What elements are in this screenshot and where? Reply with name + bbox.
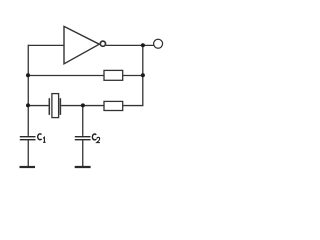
resistor R2 series [104, 101, 123, 110]
node junction dot left rail row2 [26, 103, 30, 107]
wire feedback row right segment [123, 75, 143, 77]
capacitor C2 top plate [75, 136, 91, 138]
node junction dot right rail row1 [141, 73, 145, 77]
wire right rail [142, 45, 144, 106]
wire C2 branch upper [82, 106, 84, 136]
wire left rail lower [27, 140, 29, 166]
wire C2 branch lower [82, 140, 84, 166]
wire input to inverter [28, 44, 64, 46]
wire output from inverter bubble [106, 44, 154, 46]
ground bar under C2 [75, 166, 91, 168]
capacitor C2 bottom plate [75, 139, 91, 141]
wire crystal row right segment [123, 105, 143, 107]
wire crystal row middle segment [61, 105, 103, 107]
node junction dot left rail row1 [26, 73, 30, 77]
output terminal circle [154, 39, 163, 48]
wire crystal row left segment [28, 105, 48, 107]
wire left rail upper [27, 45, 29, 136]
op-amp U1 inverter triangle [64, 26, 99, 63]
label C2 letter C [92, 134, 96, 140]
ground bar under C1 [20, 166, 36, 168]
crystal X1 body [52, 94, 59, 118]
label C1 subscript 1 [43, 137, 46, 142]
inverter output bubble [100, 41, 105, 46]
wire feedback row left segment [28, 75, 103, 77]
resistor R1 feedback [104, 70, 123, 80]
node junction dot right rail top [141, 43, 145, 47]
node junction dot C2 branch row2 [81, 103, 85, 107]
label C1 letter C [38, 134, 42, 140]
label C2 subscript 2 [97, 137, 100, 142]
capacitor C1 bottom plate [20, 139, 36, 141]
crystal X1 left plate [48, 98, 50, 115]
capacitor C1 top plate [20, 136, 36, 138]
crystal X1 right plate [59, 98, 61, 115]
